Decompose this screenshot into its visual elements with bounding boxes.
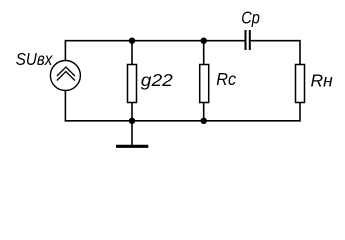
node junction top g22 [129, 38, 135, 44]
svg-text:g22: g22 [141, 70, 173, 90]
capacitor Cp plates [246, 30, 250, 50]
svg-text:SUвх: SUвх [16, 49, 54, 69]
wire Rc top lead [203, 41, 205, 65]
svg-text:Ср: Ср [241, 8, 260, 28]
wire g22 top lead [131, 41, 133, 65]
wire left vertical lower [64, 91, 66, 122]
wire Rc bottom lead [203, 103, 205, 121]
node junction top Rc [201, 38, 207, 44]
resistor Rc body [200, 65, 209, 103]
wire g22 bottom lead [131, 103, 133, 121]
source U1 circle [50, 61, 80, 91]
svg-text:Rн: Rн [311, 70, 334, 90]
wire bottom [65, 120, 300, 122]
node junction bottom g22/ground [129, 118, 135, 124]
wire top right segment [251, 40, 300, 42]
wire left vertical upper [64, 40, 66, 61]
wire top left segment [65, 40, 244, 42]
source U1 chevron symbol [57, 67, 75, 80]
wire Rn bottom lead [299, 103, 301, 122]
resistor Rn body [296, 65, 305, 103]
resistor g22 body [128, 65, 137, 103]
node junction bottom Rc [201, 118, 207, 124]
ground bar [116, 145, 148, 148]
ground stem [131, 121, 133, 146]
wire Rn top lead [299, 40, 301, 65]
svg-text:Rс: Rс [216, 69, 236, 89]
